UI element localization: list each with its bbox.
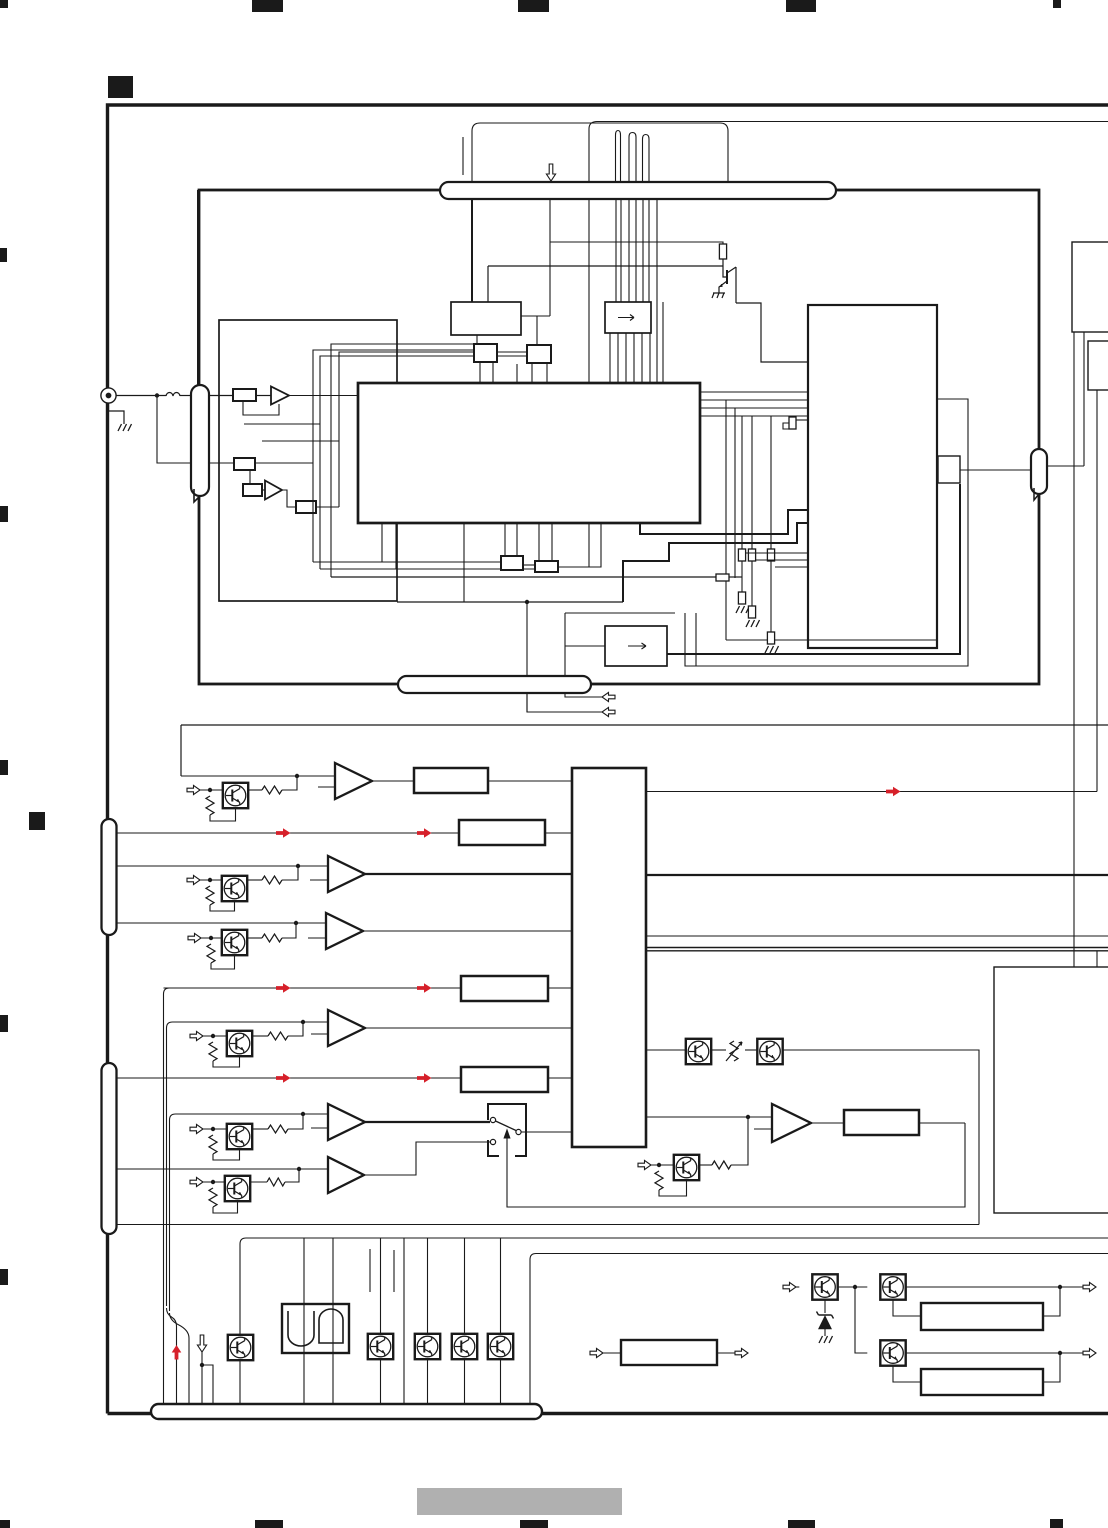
wire chain2 mid (751, 561, 753, 606)
wire R1 to T1 (256, 395, 271, 397)
wire I out (783, 1050, 979, 1225)
wire H row in (646, 1049, 686, 1051)
digital transistor Q21 box (368, 1334, 393, 1359)
wire LS in (603, 1352, 621, 1354)
wire RB1 out (1043, 1287, 1060, 1316)
digital transistor Q12 circle (224, 932, 245, 953)
wire v-right 3 (1096, 390, 1098, 792)
wire CN1 to R1 (209, 395, 233, 397)
wire wrap 4 (339, 352, 527, 507)
wire row3.5 (164, 987, 456, 989)
block logic G1 (282, 1304, 349, 1353)
resistor R4 (296, 501, 316, 513)
signal arrow red 7 (886, 787, 901, 797)
ground jack (118, 424, 132, 431)
wire IC top pin b (662, 302, 664, 383)
block IF filter (451, 302, 521, 335)
digital transistor Q20 box (228, 1335, 253, 1360)
wire loop to right edge (589, 122, 1108, 183)
wire rail A (117, 1224, 980, 1226)
node jack junction (155, 393, 159, 397)
wire boxA pin2 (492, 362, 494, 383)
port arrow out 2 (1083, 1348, 1096, 1357)
wire out 936 (646, 935, 1108, 937)
resistor Rc2b (748, 606, 755, 618)
wire chain2 top (751, 416, 753, 549)
wire bus leg 6 (648, 199, 650, 302)
block ceramic A (474, 344, 497, 362)
wire IC pin b3b (551, 523, 553, 561)
wire IC to PLL 3 (700, 407, 808, 409)
wire route left (564, 613, 566, 676)
port out arrow 2 (602, 707, 615, 716)
digital transistor Q24 box (488, 1334, 513, 1359)
wire DL4 out (548, 1077, 572, 1079)
block xtal X2 (535, 561, 558, 572)
wire bus drop 4 (403, 1238, 405, 1405)
wire R14 up (288, 1114, 303, 1129)
wire A14 out (365, 1121, 490, 1123)
wire rail C corner (530, 1254, 536, 1406)
resistor R577 (716, 574, 729, 581)
digital transistor Q10 circle (225, 785, 246, 806)
resistor block RB1 (921, 1303, 1043, 1330)
wire loop to Q1 (471, 131, 473, 182)
shield box (219, 320, 397, 601)
resistor R12 (262, 934, 282, 942)
resistor R10 (262, 786, 282, 794)
wire Q30 out (838, 1286, 868, 1288)
signal arrow red 2 (417, 828, 432, 838)
wire detector pin 5 (641, 333, 643, 383)
wire detector pin 6 (649, 333, 651, 383)
wire Q16 bias return (659, 1180, 687, 1196)
digital transistor Q31 symbol (884, 1277, 898, 1297)
photo coupler PC1 circle (688, 1041, 709, 1062)
block delay DL4 (461, 1067, 548, 1092)
node down arrow junction (200, 1363, 204, 1367)
resistor Q11 bias (206, 886, 214, 905)
wire IC to PLL 4 (700, 415, 808, 417)
photo coupler PC1 symbol (689, 1042, 703, 1062)
signal arrow red 3 (276, 983, 291, 993)
wire A13 out (365, 1027, 572, 1029)
node row2 junction (296, 864, 300, 868)
resistor Q13 bias (209, 1042, 217, 1061)
wire CN1 to R2 (209, 462, 234, 464)
wire R10 up (282, 776, 297, 790)
registration mark top 1 (252, 0, 283, 12)
switch SW1 contacts (490, 1117, 521, 1144)
block decoder D2 (605, 626, 667, 666)
wire loop bump 2 (629, 133, 636, 183)
amp A10 (335, 763, 372, 799)
digital transistor Q14 symbol (230, 1127, 244, 1147)
wire loop bump 3 (643, 135, 650, 183)
wire Q12 bias return (211, 955, 235, 969)
wire SW1 control (507, 1123, 965, 1207)
wire R15 out (250, 1181, 267, 1183)
block delay DL1 (414, 768, 488, 793)
wire A11 stub (310, 879, 328, 881)
wire rail 577 tail (729, 576, 742, 578)
arrow glyph in D2 (628, 643, 646, 649)
wire Q10 in (200, 789, 223, 791)
wire rail B (246, 1237, 1108, 1239)
wire bus leg 4 (635, 199, 637, 302)
registration mark bottom-left corner (0, 1520, 10, 1528)
wire feedback rail (181, 724, 1108, 726)
wire Q16 in (651, 1164, 674, 1166)
digital transistor Q11 symbol (225, 879, 239, 899)
wire bus drop 1 (303, 1238, 305, 1405)
wire tap 441 (262, 440, 339, 442)
port arrow out 1 (1083, 1282, 1096, 1291)
digital transistor Q16 symbol (677, 1158, 691, 1178)
wire Q15 in (203, 1181, 225, 1183)
digital transistor Q13 box (227, 1031, 252, 1056)
wire boxB feed (536, 316, 538, 345)
wire IC to PLL 1 (700, 391, 808, 393)
digital transistor Q22 circle (417, 1336, 438, 1357)
registration mark left 3 (0, 760, 8, 775)
ground under Q1 (712, 290, 725, 298)
wire Q32 to RB2 (893, 1366, 921, 1382)
digital transistor Q30 symbol (816, 1277, 830, 1297)
wire boxB pin2 (546, 363, 548, 383)
wire frame to connector (197, 190, 199, 385)
title label (417, 1488, 622, 1515)
buffer amp A1 (271, 387, 289, 405)
node row1 junction (295, 774, 299, 778)
wire R15 up (285, 1169, 299, 1182)
wire branch (202, 1365, 213, 1405)
wire base rail (488, 265, 723, 267)
node Q30 junction (853, 1285, 857, 1289)
gate U2b (319, 1309, 343, 1343)
wire bus drop 7 (500, 1238, 502, 1405)
wire Q13 bias return (213, 1056, 240, 1067)
wire tab to CN2 (960, 469, 1031, 471)
port arrow Q11 (187, 875, 200, 884)
block detector (605, 302, 651, 333)
wire IC pin b1 (504, 523, 506, 556)
wire detector pin 2 (617, 333, 619, 383)
signal arrow red 5 (276, 1073, 291, 1083)
port arrow Q10 (187, 785, 200, 794)
wire wrap 1 bottom (313, 561, 501, 563)
wire Q30 in (796, 1286, 799, 1288)
resistor Rc3 (767, 549, 774, 561)
registration mark bottom 1 (255, 1520, 283, 1528)
wire wrap 3 (331, 344, 474, 577)
block edge E2 (1088, 341, 1108, 390)
wire R2 out (255, 462, 313, 464)
wire R13 out (252, 1035, 268, 1037)
resistor Rc2 (748, 549, 755, 561)
digital transistor Q22 box (415, 1334, 440, 1359)
wire to Q32 (855, 1287, 867, 1353)
block power unit (994, 967, 1108, 1213)
node Q16 junction (657, 1163, 661, 1167)
resistor Rc1 (738, 549, 745, 561)
wire detector pin 3 (625, 333, 627, 383)
digital transistor Q20 circle (230, 1337, 251, 1358)
ferrite bead L1 (166, 392, 180, 396)
wire IC to PLL 2 (700, 399, 808, 401)
wire Q12 in (201, 937, 222, 939)
resistor Q14 bias (209, 1135, 217, 1154)
resistor R14 (268, 1125, 288, 1133)
buffer amp A2 (265, 481, 282, 500)
wire rail C (536, 1253, 1108, 1255)
wire R12 out (247, 937, 262, 939)
wire DL5 out (919, 1122, 965, 1124)
wire v-right 1 (1073, 332, 1075, 967)
wire Q1 collector route (736, 303, 808, 362)
wire R16 up (731, 1117, 748, 1165)
wire IC pin b3 (538, 523, 540, 561)
registration mark top 3 (786, 0, 816, 12)
block matrix M1 (572, 768, 646, 1147)
digital transistor Q20 symbol (231, 1338, 245, 1358)
connector CN2 (1031, 449, 1047, 494)
wire C small loop (783, 423, 789, 429)
photo coupler PC2 box (757, 1039, 782, 1064)
tuner block frame (199, 190, 1039, 684)
block tab T (938, 456, 960, 483)
resistor block RB2 (921, 1369, 1043, 1395)
digital transistor Q23 circle (454, 1336, 475, 1357)
block delay DL2 (459, 820, 545, 845)
wire D2 out thick (667, 484, 960, 654)
ground chain2 (746, 620, 760, 627)
port arrow Q14 (190, 1124, 203, 1133)
digital transistor Q32 symbol (884, 1343, 898, 1363)
wire bus leg 1 (615, 199, 617, 302)
wire A1 out (289, 395, 358, 397)
wire fan C (170, 1313, 190, 1405)
digital transistor Q21 circle (370, 1336, 391, 1357)
wire row4.5 (117, 1077, 462, 1079)
ground chain3 (765, 646, 779, 653)
wire IC pin b4 (381, 523, 383, 562)
resistor R1 (233, 389, 256, 401)
wire A12 out (363, 930, 572, 932)
digital transistor Q12 symbol (225, 933, 239, 953)
wire row5 main (170, 1114, 329, 1311)
registration mark top-left corner (0, 0, 8, 8)
wire R3 to T2 (262, 489, 265, 491)
wire IC pin b5 (395, 523, 397, 569)
wire IF filter out (521, 315, 550, 317)
wire bus leg 5 (642, 199, 644, 302)
wire rail B corner (240, 1238, 246, 1405)
block delay DL3 (461, 976, 548, 1001)
amp A13 (328, 1010, 365, 1046)
resistor R3 (243, 484, 262, 496)
arrow into bus (546, 164, 555, 181)
wire leg to IF block (471, 199, 473, 302)
bus B1 (440, 182, 836, 199)
wire bus drop 5 (427, 1238, 429, 1405)
digital transistor Q14 circle (229, 1126, 250, 1147)
node out junction 2 (1058, 1351, 1062, 1355)
wire bundle v1 (725, 400, 727, 640)
resistor Q12 bias (207, 944, 215, 963)
wire R2 to R3 (249, 470, 251, 484)
wire A13 stub (311, 1033, 328, 1035)
resistor Rc3b (767, 632, 774, 644)
node row3 junction (294, 921, 298, 925)
wire A2 to R4 (282, 490, 296, 507)
port arrow out LS (735, 1348, 748, 1357)
registration mark top 2 (518, 0, 549, 12)
wire bead to connector (180, 395, 191, 397)
digital transistor Q10 symbol (226, 786, 240, 806)
digital transistor Q11 box (222, 876, 247, 901)
port arrow Q15 (190, 1177, 203, 1186)
wire leg arrow net (549, 199, 551, 316)
wire jack to bead (116, 395, 166, 397)
ground chain1 (736, 606, 750, 613)
wire I in (745, 1049, 757, 1051)
port arrow Q13 (190, 1031, 203, 1040)
wire out row1 (646, 791, 1097, 793)
wire boxA leg (476, 335, 478, 344)
wire y602 net (397, 601, 623, 603)
registration mark bottom right (1050, 1519, 1063, 1528)
wire bus leg 3 (628, 199, 630, 302)
wire SW1 common out (521, 1131, 572, 1133)
wire detector pin 1 (609, 333, 611, 383)
amp A16 (772, 1104, 811, 1142)
signal arrow red up (172, 1345, 182, 1360)
digital transistor Q15 circle (227, 1178, 248, 1199)
wire chain3 top (770, 416, 772, 549)
bus B3 (151, 1404, 542, 1419)
wire R11 out (247, 879, 262, 881)
registration mark left 5 (0, 1269, 8, 1285)
wire R11 up (282, 866, 298, 880)
wire IC pin b2 (516, 523, 518, 556)
wire IC top pin a (656, 199, 658, 383)
wire row1 main (181, 775, 335, 777)
wire A10 out (372, 780, 414, 782)
wire A15 out (364, 1142, 490, 1175)
wire boxA pin1 (479, 362, 481, 383)
wire wrap 2 (320, 356, 527, 569)
wire R12 up (282, 923, 296, 938)
wire DL2 out (545, 832, 572, 834)
digital transistor Q13 circle (229, 1033, 250, 1054)
wire pin to block R (1096, 951, 1098, 967)
wire IC pin b6 (463, 523, 465, 602)
digital transistor Q31 box (880, 1274, 905, 1299)
switch SW1 control arrow (504, 1130, 510, 1156)
wire bus leg 2 (620, 199, 622, 302)
connector CN3 (102, 819, 117, 935)
photo coupler PC1 box (686, 1039, 711, 1064)
wire bundle bottom (726, 639, 937, 641)
wire v-right 2 (1083, 332, 1085, 466)
connector CN2 notch (1034, 488, 1039, 500)
transistor Q1 (719, 267, 736, 303)
digital transistor Q16 circle (676, 1157, 697, 1178)
wire zener to ground (824, 1329, 826, 1336)
resistor Q15 bias (209, 1188, 217, 1207)
registration mark left 2 (0, 506, 8, 522)
signal arrow red 4 (417, 983, 432, 993)
wire chain3 mid (770, 561, 772, 632)
node Q12 junction (209, 936, 213, 940)
wire thick step 1 (623, 523, 808, 602)
wire A11 out (365, 873, 572, 875)
wire bundle v2 (734, 408, 736, 578)
wire from down arrow (201, 1352, 203, 1405)
wire chain1 top (741, 416, 743, 549)
port arrow in LS (590, 1348, 603, 1357)
wire wrap 2 bottom (320, 568, 535, 570)
digital transistor Q23 symbol (455, 1337, 469, 1357)
wire Q14 bias return (213, 1149, 240, 1160)
wire thick step 2 (640, 510, 808, 534)
port arrow Q30 (783, 1282, 796, 1291)
wire C small stub (796, 419, 808, 421)
digital transistor Q24 circle (490, 1336, 511, 1357)
wire A16 stub (754, 1128, 772, 1130)
wire jack tap (157, 396, 191, 464)
wire DL3 out (548, 987, 572, 989)
wire float 2 (393, 1250, 395, 1292)
wire loop bump 1 (616, 131, 621, 183)
wire R4 out (316, 506, 339, 508)
port arrow Q16 (638, 1160, 651, 1169)
registration mark top right (1053, 0, 1061, 8)
wire drop to bus B2 (526, 602, 528, 712)
wire bus drop 6 (464, 1238, 466, 1405)
wire zener feed (824, 1300, 826, 1313)
wire X2 out (558, 523, 601, 567)
wire R10 out (248, 789, 262, 791)
photo coupler PC2 symbol (761, 1042, 775, 1062)
wire leg long lower (588, 523, 590, 567)
wire loop arc (472, 123, 728, 182)
wire detector pin 4 (633, 333, 635, 383)
resistor R13 (268, 1032, 288, 1040)
wire float 1 (369, 1249, 371, 1292)
connector CN1 notch (194, 489, 200, 502)
connector CN4 (102, 1063, 117, 1234)
wire row4 main (167, 1022, 329, 1306)
digital transistor Q10 box (223, 783, 248, 808)
digital transistor Q11 circle (224, 878, 245, 899)
wire R1 feedback (243, 401, 279, 415)
wire fold pair (695, 613, 697, 666)
digital transistor Q16 box (674, 1155, 699, 1180)
wire Q13 in (203, 1035, 227, 1037)
digital transistor Q32 circle (883, 1343, 904, 1364)
arrow glyph in detector (618, 315, 634, 321)
node row5 junction (301, 1112, 305, 1116)
digital transistor Q32 box (880, 1340, 905, 1365)
wire DL1 out (488, 780, 572, 782)
resistor R15 (267, 1178, 285, 1186)
resistor R16 (712, 1161, 731, 1169)
wire out pair a (646, 947, 1108, 949)
amp A15 (328, 1157, 364, 1193)
block ceramic B (527, 345, 551, 363)
